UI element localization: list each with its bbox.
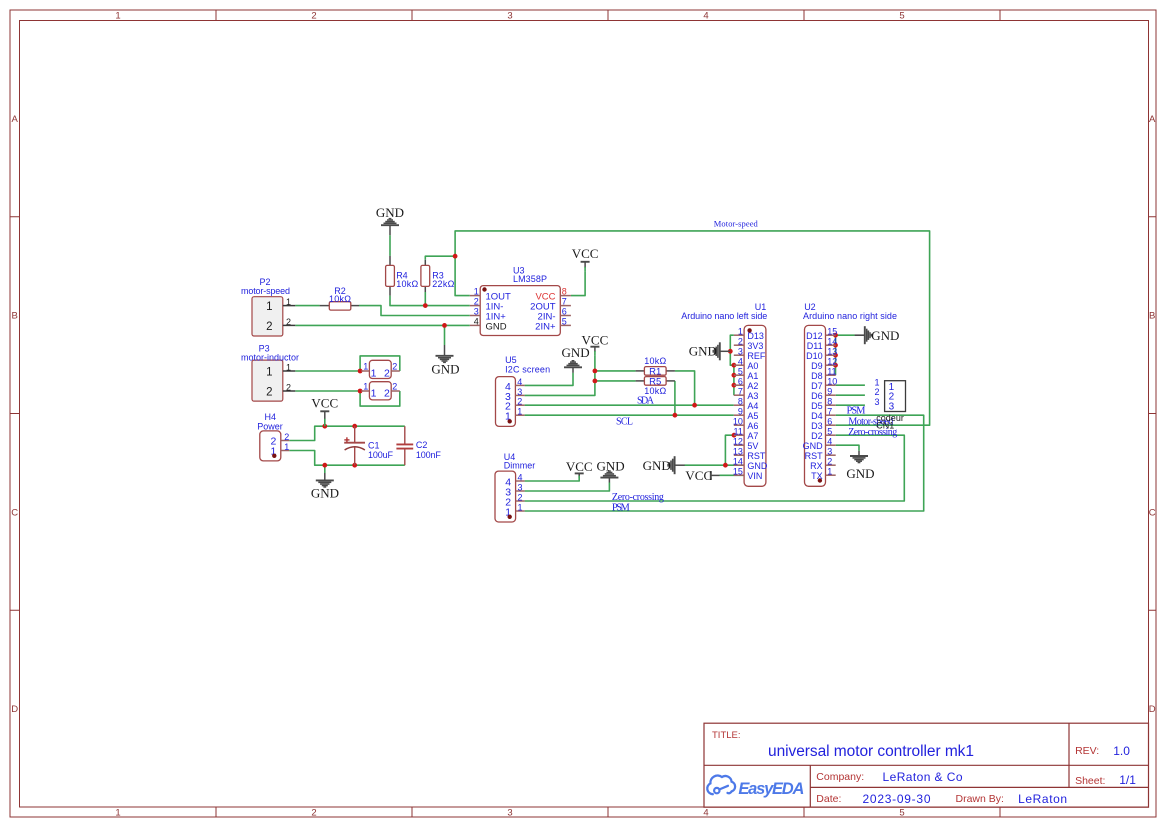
- junction P3.2: [358, 389, 363, 394]
- svg-text:A: A: [1149, 114, 1156, 125]
- svg-text:universal motor controller mk1: universal motor controller mk1: [768, 743, 974, 760]
- svg-text:A6: A6: [747, 421, 758, 431]
- svg-text:4: 4: [474, 317, 479, 327]
- inductor link upper (P3 loop): [361, 360, 400, 379]
- connector CN1 codeur: [874, 377, 905, 430]
- svg-text:10kΩ: 10kΩ: [644, 386, 666, 396]
- svg-text:Arduino nano right side: Arduino nano right side: [803, 311, 897, 321]
- svg-text:SDA: SDA: [637, 395, 655, 406]
- svg-text:A2: A2: [747, 381, 758, 391]
- svg-text:C1: C1: [368, 440, 380, 450]
- svg-text:GND: GND: [311, 486, 339, 501]
- svg-text:1: 1: [115, 807, 120, 818]
- ground above R4: [376, 205, 404, 235]
- svg-text:100nF: 100nF: [416, 450, 442, 460]
- svg-text:3: 3: [507, 807, 512, 818]
- wire R4 bottom to U3 1IN-: [390, 296, 470, 306]
- wire P2.2 to U3 GND pin: [295, 324, 470, 326]
- svg-text:C: C: [11, 507, 18, 518]
- svg-text:1: 1: [738, 326, 743, 336]
- svg-text:VCC: VCC: [566, 459, 593, 474]
- wire R3 top to Motor-speed: [425, 256, 455, 260]
- svg-text:15: 15: [827, 326, 837, 336]
- svg-text:PSM: PSM: [847, 406, 867, 417]
- svg-text:12: 12: [733, 436, 743, 446]
- svg-text:1: 1: [284, 442, 289, 452]
- junction U1 GND tap: [728, 349, 733, 354]
- svg-text:D: D: [11, 704, 18, 715]
- wire R1 right to SDA: [675, 371, 695, 405]
- svg-text:2: 2: [827, 456, 832, 466]
- svg-text:D9: D9: [811, 361, 823, 371]
- svg-text:4: 4: [703, 11, 708, 22]
- header U2 Arduino nano right side: [803, 302, 897, 486]
- wire H4.2 to VCC rail: [289, 426, 405, 440]
- junction VCC rail: [322, 424, 327, 429]
- wire SDA net U5.2 to U1 A4: [525, 404, 734, 406]
- wire U2 pins 15-11: [835, 335, 837, 375]
- svg-text:2: 2: [384, 387, 390, 399]
- connector U4 Dimmer: [495, 452, 535, 522]
- svg-text:A5: A5: [747, 411, 758, 421]
- svg-text:3: 3: [874, 397, 879, 407]
- svg-text:D2: D2: [811, 431, 823, 441]
- svg-text:A: A: [12, 114, 19, 125]
- power VCC above R1/R5: [582, 333, 609, 356]
- svg-text:LeRaton & Co: LeRaton & Co: [883, 770, 963, 784]
- wire U4.4 to VCC: [525, 478, 580, 481]
- svg-text:7: 7: [738, 386, 743, 396]
- svg-text:U5: U5: [505, 355, 517, 365]
- svg-text:3: 3: [474, 307, 479, 317]
- svg-text:10kΩ: 10kΩ: [644, 356, 666, 366]
- svg-text:3: 3: [507, 11, 512, 22]
- svg-text:VIN: VIN: [747, 471, 762, 481]
- wire U5.4 to GND: [525, 373, 573, 386]
- svg-text:Drawn By:: Drawn By:: [956, 793, 1004, 805]
- junction: [352, 463, 357, 468]
- svg-text:1: 1: [286, 363, 291, 373]
- svg-text:SCL: SCL: [616, 416, 633, 427]
- svg-text:8: 8: [562, 287, 567, 297]
- wire U5.3 to VCC: [525, 355, 595, 395]
- svg-text:7: 7: [827, 406, 832, 416]
- svg-text:2: 2: [286, 317, 291, 327]
- wire Motor-speed net U3.1 to U2 D3: [455, 231, 929, 425]
- svg-text:1: 1: [371, 367, 377, 379]
- svg-text:1: 1: [371, 387, 377, 399]
- svg-text:GND: GND: [597, 459, 625, 474]
- ground below U2 GND pin: [846, 456, 874, 481]
- svg-text:1: 1: [517, 407, 522, 417]
- svg-text:1: 1: [363, 382, 368, 392]
- svg-text:2: 2: [517, 397, 522, 407]
- resistor R1 10k pullup: [636, 356, 675, 377]
- svg-text:2: 2: [266, 387, 272, 399]
- connector P3 motor-inductor: [241, 343, 299, 401]
- junction R3/1IN-: [423, 303, 428, 308]
- wire U2 D7 stub: [836, 384, 865, 386]
- svg-text:motor-speed: motor-speed: [241, 286, 290, 296]
- ground above U5 pin4 wire: [562, 345, 590, 367]
- svg-text:10kΩ: 10kΩ: [329, 294, 351, 304]
- junction U1 A7: [732, 433, 737, 438]
- svg-text:6: 6: [562, 307, 567, 317]
- junction U1 A0: [732, 363, 737, 368]
- svg-text:3V3: 3V3: [747, 341, 763, 351]
- svg-text:Power: Power: [257, 422, 283, 432]
- wire U2 D6 stub: [836, 394, 865, 396]
- wire GND to U1 pin14: [685, 464, 744, 466]
- svg-text:PSM: PSM: [612, 502, 631, 513]
- svg-text:D7: D7: [811, 381, 823, 391]
- junction: [352, 424, 357, 429]
- svg-text:2: 2: [392, 382, 397, 392]
- svg-text:5: 5: [738, 366, 743, 376]
- junction SDA: [692, 403, 697, 408]
- svg-text:LM358P: LM358P: [513, 274, 547, 284]
- svg-text:GND: GND: [486, 321, 507, 332]
- svg-text:CN1: CN1: [876, 421, 894, 431]
- resistor R5 10k pullup: [636, 376, 675, 396]
- svg-text:2: 2: [311, 11, 316, 22]
- svg-text:100uF: 100uF: [368, 450, 394, 460]
- svg-text:B: B: [12, 311, 18, 322]
- svg-text:GND: GND: [871, 328, 899, 343]
- svg-text:1: 1: [115, 11, 120, 22]
- svg-text:Motor-speed: Motor-speed: [714, 219, 759, 229]
- svg-text:1: 1: [874, 377, 879, 387]
- EasyEDA logo: [707, 776, 804, 799]
- svg-text:6: 6: [827, 416, 832, 426]
- svg-text:D11: D11: [807, 341, 823, 351]
- svg-text:2: 2: [392, 362, 397, 372]
- svg-text:22kΩ: 22kΩ: [432, 279, 454, 289]
- wire R5 right to SCL: [674, 381, 676, 415]
- wire U4.3 to GND: [525, 483, 610, 492]
- svg-text:Dimmer: Dimmer: [504, 460, 536, 470]
- svg-text:Sheet:: Sheet:: [1075, 775, 1105, 787]
- connector H4 Power: [257, 412, 289, 461]
- wire PSM net U2 D4 to U4.1: [525, 415, 924, 511]
- ground right of U2 pin15: [855, 326, 900, 344]
- ground left of U1 pin14: [643, 456, 685, 474]
- svg-text:A4: A4: [747, 401, 758, 411]
- svg-text:D5: D5: [811, 401, 823, 411]
- wire U1 pins 4-7: [733, 365, 735, 395]
- svg-text:13: 13: [733, 446, 743, 456]
- svg-text:4: 4: [827, 436, 832, 446]
- svg-text:Zero-crossing: Zero-crossing: [612, 492, 664, 503]
- svg-text:TITLE:: TITLE:: [712, 730, 741, 741]
- svg-text:5V: 5V: [747, 441, 758, 451]
- title block: [704, 723, 1149, 807]
- wire P3.2 loop: [295, 390, 361, 392]
- svg-text:1.0: 1.0: [1113, 744, 1130, 758]
- svg-text:Date:: Date:: [816, 793, 841, 805]
- svg-text:Arduino nano left side: Arduino nano left side: [681, 311, 767, 321]
- svg-text:REV:: REV:: [1075, 745, 1099, 757]
- svg-text:2: 2: [284, 432, 289, 442]
- wire VCC to R5: [595, 380, 636, 382]
- svg-text:4: 4: [703, 807, 708, 818]
- svg-text:3: 3: [517, 387, 522, 397]
- wire P3.1 loop: [295, 370, 361, 372]
- wire GND stem below H4 rail: [324, 465, 326, 473]
- svg-text:14: 14: [827, 336, 837, 346]
- svg-text:15: 15: [733, 466, 743, 476]
- svg-text:8: 8: [827, 396, 832, 406]
- resistor R4 10k: [386, 256, 419, 296]
- svg-text:GND: GND: [846, 466, 874, 481]
- resistor R3 22k: [421, 260, 455, 292]
- op-amp U3 LM358P: [470, 266, 571, 336]
- svg-text:4: 4: [517, 377, 522, 387]
- junction SCL: [673, 413, 678, 418]
- svg-text:A1: A1: [747, 371, 758, 381]
- junction R1 left: [593, 369, 598, 374]
- svg-text:2IN+: 2IN+: [535, 321, 556, 332]
- svg-text:Company:: Company:: [816, 771, 864, 783]
- junction U2 D10: [833, 353, 838, 358]
- svg-text:4: 4: [518, 473, 523, 483]
- wire R3 bottom: [424, 292, 426, 306]
- power VCC at H4: [311, 396, 338, 427]
- svg-text:B: B: [1149, 311, 1155, 322]
- svg-text:5: 5: [827, 426, 832, 436]
- svg-text:5: 5: [899, 807, 904, 818]
- junction U1 A1: [732, 373, 737, 378]
- wire U3 VCC pin to VCC: [571, 272, 585, 296]
- wire U1 A7 branch to GND net: [725, 435, 733, 465]
- svg-text:10kΩ: 10kΩ: [396, 279, 418, 289]
- svg-text:14: 14: [733, 456, 743, 466]
- svg-text:A0: A0: [747, 361, 758, 371]
- svg-text:2023-09-30: 2023-09-30: [863, 792, 931, 806]
- power VCC at U1 pin15: [685, 468, 719, 483]
- svg-text:1: 1: [266, 301, 272, 313]
- svg-text:VCC: VCC: [582, 333, 609, 348]
- svg-text:VCC: VCC: [685, 468, 712, 483]
- junction P3.1: [358, 369, 363, 374]
- svg-text:2: 2: [266, 321, 272, 333]
- wire U2 D12 to GND: [836, 334, 855, 336]
- svg-text:C2: C2: [416, 440, 428, 450]
- svg-text:10: 10: [733, 416, 743, 426]
- svg-text:2: 2: [384, 367, 390, 379]
- wire VCC to R1: [595, 370, 636, 372]
- svg-text:RX: RX: [810, 461, 823, 471]
- svg-text:3: 3: [518, 483, 523, 493]
- svg-text:D: D: [1149, 704, 1156, 715]
- wire P2.1 to R2: [295, 305, 319, 307]
- junction U1 A2: [732, 383, 737, 388]
- svg-text:11: 11: [734, 426, 743, 436]
- junction U2 D9: [833, 363, 838, 368]
- capacitor C2 100nF: [396, 426, 441, 465]
- connector P2 motor-speed: [241, 277, 295, 336]
- connector U5 I2C screen: [496, 355, 551, 426]
- svg-text:1: 1: [266, 367, 272, 379]
- svg-text:5: 5: [562, 317, 567, 327]
- svg-text:GND: GND: [643, 458, 671, 473]
- svg-text:motor-inductor: motor-inductor: [241, 352, 299, 362]
- svg-text:4: 4: [738, 356, 743, 366]
- junction A7/GND wire: [723, 463, 728, 468]
- power VCC at U3 pin8: [572, 246, 599, 272]
- svg-text:D10: D10: [806, 351, 823, 361]
- svg-text:9: 9: [738, 406, 743, 416]
- svg-text:2: 2: [874, 387, 879, 397]
- ground below H4: [311, 480, 339, 500]
- svg-text:1: 1: [363, 362, 368, 372]
- svg-text:GND: GND: [803, 441, 824, 451]
- wire Zero-crossing net U2 D2 to U4.2: [525, 435, 905, 501]
- wire U2 D5 stub: [836, 404, 865, 406]
- svg-text:RST: RST: [747, 451, 766, 461]
- ground left of U1 pin3: [689, 342, 731, 360]
- svg-text:1: 1: [474, 287, 479, 297]
- svg-text:2: 2: [311, 807, 316, 818]
- wire R2 to U3 1IN+: [359, 306, 470, 316]
- svg-text:12: 12: [827, 356, 837, 366]
- svg-text:LeRaton: LeRaton: [1018, 792, 1067, 806]
- svg-text:A7: A7: [747, 431, 758, 441]
- svg-text:8: 8: [738, 396, 743, 406]
- wire U1 pins 1-4: [730, 335, 734, 365]
- svg-text:VCC: VCC: [572, 246, 599, 261]
- svg-text:D6: D6: [811, 391, 823, 401]
- svg-text:2: 2: [738, 336, 743, 346]
- svg-text:2: 2: [518, 493, 523, 503]
- junction GND rail: [322, 463, 327, 468]
- svg-text:I2C screen: I2C screen: [505, 365, 550, 375]
- svg-text:D4: D4: [811, 411, 823, 421]
- inductor link lower (P3 loop): [361, 382, 400, 400]
- svg-text:3: 3: [738, 346, 743, 356]
- svg-text:1: 1: [518, 503, 523, 513]
- svg-text:2: 2: [474, 297, 479, 307]
- resistor R2 10k: [320, 286, 359, 310]
- svg-text:13: 13: [827, 346, 837, 356]
- junction GND branch: [442, 323, 447, 328]
- junction U2 D12: [833, 333, 838, 338]
- svg-text:7: 7: [562, 297, 567, 307]
- svg-text:1: 1: [827, 466, 832, 476]
- svg-text:10: 10: [827, 376, 837, 386]
- svg-text:D8: D8: [811, 371, 823, 381]
- svg-text:GND: GND: [431, 361, 459, 376]
- svg-text:D12: D12: [806, 331, 823, 341]
- svg-text:1: 1: [286, 297, 291, 307]
- junction R5 left: [593, 379, 598, 384]
- svg-text:3: 3: [827, 446, 832, 456]
- svg-text:GND: GND: [747, 461, 768, 471]
- svg-text:3: 3: [889, 402, 895, 413]
- junction U2 D11: [833, 343, 838, 348]
- power VCC at U4 pin4: [566, 459, 593, 478]
- svg-text:9: 9: [827, 386, 832, 396]
- wire U2 GND pin to GND: [836, 445, 859, 451]
- svg-text:D3: D3: [811, 421, 823, 431]
- ground at U4 pin3: [597, 459, 625, 478]
- wire VCC to U1 pin15: [720, 474, 744, 476]
- svg-text:REF: REF: [747, 351, 766, 361]
- svg-text:C: C: [1149, 507, 1156, 518]
- svg-text:1/1: 1/1: [1119, 773, 1136, 787]
- svg-text:5: 5: [899, 11, 904, 22]
- wire SCL net U5.1 to U1 A5: [525, 414, 734, 416]
- svg-text:VCC: VCC: [311, 396, 338, 411]
- wire H4.1 to GND rail: [289, 451, 405, 466]
- svg-text:2: 2: [286, 383, 291, 393]
- wire R4 top to GND: [389, 235, 391, 256]
- svg-text:11: 11: [827, 366, 836, 376]
- svg-text:A3: A3: [747, 391, 758, 401]
- wire GND branch below U3: [444, 325, 446, 345]
- svg-text:6: 6: [738, 376, 743, 386]
- header U1 Arduino nano left side: [681, 302, 768, 486]
- capacitor C1 100uF polarized: [344, 426, 393, 465]
- svg-text:RST: RST: [805, 451, 824, 461]
- svg-text:GND: GND: [376, 205, 404, 220]
- svg-text:EasyEDA: EasyEDA: [738, 780, 804, 798]
- svg-text:GND: GND: [689, 344, 717, 359]
- ground below U3: [431, 345, 459, 376]
- junction R3 top: [453, 254, 458, 259]
